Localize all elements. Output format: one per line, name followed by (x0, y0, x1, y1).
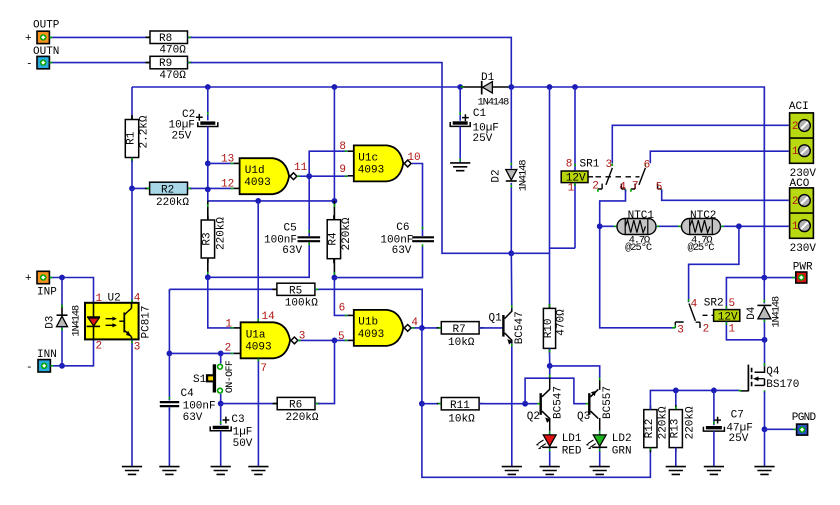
svg-text:3: 3 (677, 325, 684, 337)
capacitor C5 (264, 222, 320, 257)
junction rail/R8net (508, 84, 514, 90)
svg-text:2: 2 (792, 196, 799, 208)
svg-text:-: - (26, 362, 33, 374)
wire to NTC1 (600, 225, 617, 227)
junction D2/Q1/R10 row (508, 250, 514, 256)
svg-text:D4: D4 (746, 306, 758, 320)
wire out to U1c pin9 (309, 175, 348, 177)
svg-text:C5: C5 (284, 222, 297, 234)
junction U1a pin14 col (255, 198, 261, 204)
diode D2 (491, 160, 530, 254)
wire R5 right to U1b out col (315, 289, 422, 328)
svg-text:R8: R8 (159, 33, 172, 45)
svg-text:R2: R2 (161, 185, 174, 197)
junction NTC1 left (597, 223, 603, 229)
junction pin13 (205, 161, 211, 167)
svg-text:100nF: 100nF (183, 401, 216, 413)
svg-text:100kΩ: 100kΩ (285, 298, 318, 310)
wire SR2 pin5 (726, 278, 764, 310)
wire Q1 emitter to gnd (511, 343, 513, 466)
wire R5 left down (168, 289, 170, 353)
capacitor C2 (169, 109, 218, 143)
svg-text:ON-OFF: ON-OFF (225, 360, 236, 393)
wire U1d out to C5 top (308, 176, 310, 236)
svg-text:12V: 12V (718, 311, 738, 323)
wire C3 to gnd (220, 431, 222, 466)
junction U1b out (419, 325, 425, 331)
svg-text:C1: C1 (473, 108, 487, 120)
svg-text:1N4148: 1N4148 (517, 160, 529, 192)
svg-text:1N4148: 1N4148 (478, 97, 510, 109)
wire SR1 pin5 to ACO2 (662, 190, 789, 201)
wire supply rail left (132, 86, 460, 88)
svg-text:1: 1 (792, 146, 799, 158)
svg-text:7: 7 (632, 181, 639, 193)
wire U1d output (297, 175, 309, 177)
wire rail corner down to R1 (131, 87, 133, 120)
wire U1a pin7 to gnd (257, 358, 259, 466)
wire LD2 to gnd (599, 448, 601, 466)
svg-text:R10: R10 (543, 318, 555, 338)
svg-text:+: + (25, 273, 32, 285)
svg-text:BC547: BC547 (552, 386, 564, 419)
svg-text:25V: 25V (172, 131, 192, 143)
svg-text:PC817: PC817 (141, 305, 153, 338)
svg-text:@25°C: @25°C (625, 242, 652, 254)
wire SR1 pin3 to ACI2 (612, 125, 789, 163)
svg-text:2: 2 (703, 324, 710, 336)
svg-text:RED: RED (562, 445, 582, 457)
wire R2 to U1d pin12 (188, 187, 234, 189)
diode D3 (44, 278, 82, 366)
svg-text:R11: R11 (450, 400, 470, 412)
wire R1 to R2 junction (131, 158, 133, 189)
wire junction to U2 pin4 (131, 188, 133, 303)
svg-text:470Ω: 470Ω (159, 45, 186, 57)
capacitor C1 (450, 108, 499, 145)
wire SR1 pin1 row (550, 247, 576, 249)
svg-text:6: 6 (644, 159, 651, 171)
svg-text:4093: 4093 (358, 164, 384, 176)
svg-text:U1a: U1a (246, 329, 266, 341)
svg-text:+: + (25, 33, 32, 45)
wire row to R10 (511, 252, 549, 254)
resistor R10 (543, 304, 567, 353)
capacitor C4 (160, 353, 216, 424)
svg-text:13: 13 (221, 153, 234, 165)
wire R3 bottom (207, 258, 209, 277)
svg-text:-: - (26, 59, 33, 71)
svg-text:D2: D2 (491, 169, 503, 182)
ground R13 (666, 467, 686, 475)
svg-text:2: 2 (225, 342, 232, 354)
svg-text:Q1: Q1 (489, 312, 503, 324)
svg-text:25V: 25V (473, 133, 493, 145)
svg-text:ACO: ACO (790, 178, 810, 190)
transistor Q2 BC547 (527, 378, 565, 431)
wire U1b out (411, 327, 422, 329)
wire C1 to gnd (459, 127, 461, 163)
svg-text:NTC2: NTC2 (690, 210, 716, 222)
wire rail right (511, 87, 764, 278)
svg-text:6: 6 (339, 303, 346, 315)
junction R4 top (332, 198, 338, 204)
svg-text:PGND: PGND (792, 412, 817, 424)
svg-text:10kΩ: 10kΩ (448, 337, 475, 349)
nand gate U1b (338, 303, 418, 346)
relay contact SR1a (592, 159, 626, 193)
svg-text:1N4148: 1N4148 (771, 296, 783, 328)
resistor R8 (146, 31, 193, 57)
svg-text:D3: D3 (44, 316, 56, 329)
nand gate U1a (225, 311, 306, 375)
ground LD1 (540, 467, 560, 475)
relay contact SR2 (675, 299, 709, 337)
svg-text:1: 1 (96, 293, 103, 305)
junction R1/R2 (129, 186, 135, 192)
wire PWR col (763, 87, 765, 278)
ground C3 (211, 467, 231, 475)
svg-text:12: 12 (221, 178, 234, 190)
capacitor C3 (210, 404, 253, 450)
junction rail/SR1coil (572, 84, 578, 90)
svg-text:5: 5 (338, 331, 345, 343)
wire NTC1 to NTC2 (656, 225, 682, 227)
wire R10 col (549, 87, 551, 308)
svg-text:Q3: Q3 (577, 411, 590, 423)
svg-text:230V: 230V (790, 243, 817, 255)
mosfet Q4 BS170 (739, 365, 800, 393)
svg-text:1: 1 (568, 183, 575, 195)
svg-text:PWR: PWR (793, 262, 813, 274)
resistor R13 (669, 390, 696, 452)
wire rail to R4 junction (333, 87, 335, 201)
node PGND pad (765, 412, 817, 435)
svg-text:R4: R4 (328, 232, 340, 246)
svg-text:GRN: GRN (612, 445, 632, 457)
wire R9 east and down to Q1 row (188, 63, 512, 254)
svg-text:2: 2 (96, 340, 103, 352)
optocoupler U2 (85, 293, 153, 354)
svg-text:C4: C4 (181, 388, 195, 400)
resistor R4 (327, 201, 353, 263)
svg-text:1: 1 (225, 318, 232, 330)
svg-text:@25°C: @25°C (688, 242, 715, 254)
junction Q2 base (522, 401, 528, 407)
wire feedback to U1b pin6 (334, 278, 348, 316)
svg-text:3: 3 (606, 159, 613, 171)
svg-text:1: 1 (729, 324, 736, 336)
wire R8 to corner (188, 37, 512, 87)
junction R2/pin12 (205, 187, 211, 193)
junction rail/C1 (457, 84, 463, 90)
wire C5 bottom route (208, 242, 309, 277)
svg-text:C6: C6 (396, 222, 409, 234)
wire to R6 (221, 403, 278, 405)
svg-text:2: 2 (792, 121, 799, 133)
svg-text:OUTN: OUTN (33, 46, 59, 58)
junction D4 bottom (762, 337, 768, 343)
wire to U1d pin13 (208, 162, 234, 164)
svg-text:Q4: Q4 (766, 366, 780, 378)
node INP pad (25, 271, 57, 298)
ground U2 pin3 (122, 467, 142, 475)
led LD2 green (586, 431, 632, 458)
capacitor C7 (703, 390, 752, 445)
wire C7 to gnd (713, 431, 715, 466)
wire Q1 collector (510, 253, 513, 308)
wire C2 down (207, 127, 209, 164)
switch S1 (193, 353, 236, 403)
wire R11 right (479, 403, 540, 405)
svg-text:U2: U2 (108, 293, 121, 305)
wire rail to C2 (207, 87, 209, 120)
svg-text:BC557: BC557 (602, 386, 614, 419)
svg-text:25V: 25V (729, 433, 749, 445)
resistor R5 (169, 283, 319, 309)
ground C1 (450, 163, 470, 171)
wire OUTP to R8 (49, 36, 150, 38)
svg-text:4093: 4093 (245, 342, 271, 354)
junction R10 bottom (547, 363, 553, 369)
ground U1a pin7 (248, 467, 268, 475)
wire OUTN to R9 (49, 62, 150, 64)
junction rail/C2 (205, 84, 211, 90)
transistor Q1 BC547 (479, 309, 526, 345)
svg-text:63V: 63V (282, 245, 302, 257)
svg-text:U1d: U1d (245, 165, 265, 177)
thermistor NTC2 (682, 210, 721, 254)
wire U1b out down to R11 (421, 328, 423, 404)
junction U1d out (306, 173, 312, 179)
svg-text:4: 4 (691, 299, 698, 311)
junction U1a out / U1b pin5 (332, 338, 338, 344)
svg-text:5: 5 (729, 298, 736, 310)
svg-text:220kΩ: 220kΩ (156, 197, 189, 209)
svg-text:1: 1 (792, 221, 799, 233)
terminal block ACI (789, 101, 817, 180)
junction R4 bottom (332, 275, 338, 281)
svg-text:R6: R6 (289, 400, 302, 412)
svg-text:10kΩ: 10kΩ (448, 413, 475, 425)
svg-text:470Ω: 470Ω (159, 70, 186, 82)
junction S1 top (218, 351, 224, 357)
svg-text:8: 8 (339, 141, 346, 153)
wire SR1 pin6 to ACI1 (650, 151, 789, 163)
resistor R1 (125, 115, 150, 162)
wire R10 bottom (549, 348, 551, 366)
wire U2 pin3 to gnd (131, 340, 133, 466)
nand gate U1c (339, 141, 420, 182)
junction R11 left (419, 401, 425, 407)
svg-text:2.2kΩ: 2.2kΩ (139, 115, 151, 148)
wire C4 to gnd (168, 407, 170, 466)
junction NTC2 right (736, 223, 742, 229)
svg-text:LD1: LD1 (562, 433, 582, 445)
wire U1a out (298, 339, 335, 341)
ground LD2 (590, 467, 610, 475)
wire C2col down2 (207, 163, 209, 189)
svg-text:S1: S1 (193, 374, 207, 386)
resistor R3 (201, 201, 227, 263)
resistor R9 (146, 56, 193, 82)
svg-text:4: 4 (134, 293, 141, 305)
junction rail/R10col (547, 84, 553, 90)
wire R6 right up to pin5 node (315, 340, 335, 403)
junction S1 bottom / R6 (218, 401, 224, 407)
wire U1b-out net to R12 bottom (422, 404, 651, 478)
wire R4 bottom (333, 259, 335, 278)
svg-text:SR2: SR2 (704, 298, 724, 310)
svg-text:2: 2 (592, 181, 599, 193)
wire U1a pin1 route (208, 277, 234, 328)
ground C7 (704, 467, 724, 475)
wire R13 to gnd (675, 448, 677, 466)
junction C7 top (711, 388, 717, 394)
svg-text:R9: R9 (159, 58, 172, 70)
wire to U1b pin5 (335, 339, 348, 341)
svg-text:R5: R5 (289, 285, 302, 297)
svg-text:220kΩ: 220kΩ (658, 406, 670, 439)
svg-text:D1: D1 (481, 72, 495, 84)
led LD1 red (536, 431, 582, 458)
wire C6 net (334, 247, 422, 278)
resistor R11 (422, 398, 484, 426)
junction rail/R4col (332, 84, 338, 90)
svg-text:R12: R12 (644, 419, 656, 439)
svg-text:10: 10 (407, 152, 420, 164)
wire INP to corner (49, 278, 93, 303)
svg-text:R13: R13 (670, 419, 682, 439)
svg-text:470Ω: 470Ω (556, 309, 568, 336)
transistor Q3 BC557 (577, 378, 614, 431)
svg-text:C7: C7 (731, 410, 744, 422)
terminal block ACO (790, 178, 817, 255)
relay coil SR1 (561, 87, 639, 248)
junction R3 bottom (205, 274, 211, 280)
diode D4 (746, 278, 782, 340)
svg-text:R1: R1 (126, 131, 138, 145)
svg-text:220kΩ: 220kΩ (286, 412, 319, 424)
ground Q1 (502, 467, 522, 475)
resistor R7 (422, 322, 484, 350)
svg-text:8: 8 (566, 159, 573, 171)
wire Q4 source down (764, 392, 766, 430)
svg-text:63V: 63V (183, 412, 203, 424)
svg-text:U1c: U1c (358, 152, 378, 164)
thermistor NTC1 (617, 210, 656, 254)
wire base jog to Q3 (525, 378, 589, 404)
svg-text:7: 7 (260, 363, 267, 375)
svg-text:3: 3 (134, 342, 141, 354)
wire NTC2 to ACO1 (721, 225, 789, 227)
wire out to U1c pin8 (309, 151, 348, 176)
junction C4 top (167, 351, 173, 357)
wire LD1 to gnd (549, 448, 551, 466)
junction INP/D3 (59, 275, 65, 281)
wire Q4 to gnd (764, 429, 766, 466)
svg-text:63V: 63V (392, 245, 412, 257)
node INN pad (26, 349, 57, 374)
node OUTP pad (25, 20, 60, 46)
wire D4 junction to Q4 drain (764, 340, 766, 366)
relay coil SR2 (703, 298, 740, 336)
wire to S1 junction (169, 352, 220, 354)
wire Q2 collector (549, 366, 551, 378)
svg-text:9: 9 (339, 164, 346, 176)
wire R10 row to Q3 emitter (550, 366, 600, 378)
junction R13 top (673, 388, 679, 394)
svg-text:220kΩ: 220kΩ (685, 406, 697, 439)
ground C4 (159, 467, 179, 475)
svg-text:1N4148: 1N4148 (71, 305, 83, 337)
svg-text:11: 11 (294, 162, 308, 174)
capacitor C6 (380, 222, 434, 257)
resistor R2 highlighted (132, 182, 192, 209)
resistor R12 (644, 405, 670, 452)
wire D2 col (510, 87, 512, 169)
wire C2col to R3 corner (208, 189, 335, 201)
svg-text:220kΩ: 220kΩ (215, 217, 227, 250)
svg-text:220kΩ: 220kΩ (341, 217, 353, 250)
svg-text:SR1: SR1 (580, 159, 600, 171)
svg-text:INP: INP (37, 287, 57, 299)
svg-text:14: 14 (262, 311, 276, 323)
wire R12 top to gate row (650, 390, 739, 409)
junction INN/D3 (59, 363, 65, 369)
wire SR1 pin4 down (600, 190, 676, 328)
relay contact SR1b (631, 159, 663, 193)
wire SR2 pin1 (726, 321, 764, 340)
junction PGND (762, 426, 768, 432)
node OUTN pad (26, 46, 59, 71)
svg-text:BC547: BC547 (514, 311, 526, 344)
diode D1 (460, 72, 511, 109)
svg-text:ACI: ACI (789, 101, 809, 113)
svg-text:R3: R3 (202, 232, 214, 245)
svg-text:R7: R7 (453, 324, 466, 336)
wire NTC2 junction to SR2 pin4 (689, 226, 739, 302)
svg-text:50V: 50V (233, 438, 253, 450)
ground Q4 (754, 467, 774, 475)
svg-text:NTC1: NTC1 (628, 210, 655, 222)
svg-text:U1b: U1b (358, 317, 378, 329)
svg-text:INN: INN (37, 349, 57, 361)
wire U1c out to C6 (412, 164, 423, 247)
resistor R6 (273, 397, 320, 424)
svg-text:4093: 4093 (244, 177, 270, 189)
svg-text:OUTP: OUTP (33, 20, 60, 32)
svg-text:C3: C3 (231, 414, 244, 426)
svg-text:BS170: BS170 (766, 379, 799, 391)
junction PWR (761, 275, 767, 281)
wire S1 junction to U1a pin2 (221, 352, 234, 354)
wire rail to C1 (459, 87, 461, 121)
svg-text:4093: 4093 (358, 329, 384, 341)
wire INN to corner (50, 340, 93, 366)
nand gate U1d (221, 153, 308, 194)
wire U1a pin14 (257, 201, 259, 322)
svg-text:Q2: Q2 (527, 411, 540, 423)
node PWR pad (764, 262, 813, 283)
svg-text:LD2: LD2 (612, 433, 632, 445)
